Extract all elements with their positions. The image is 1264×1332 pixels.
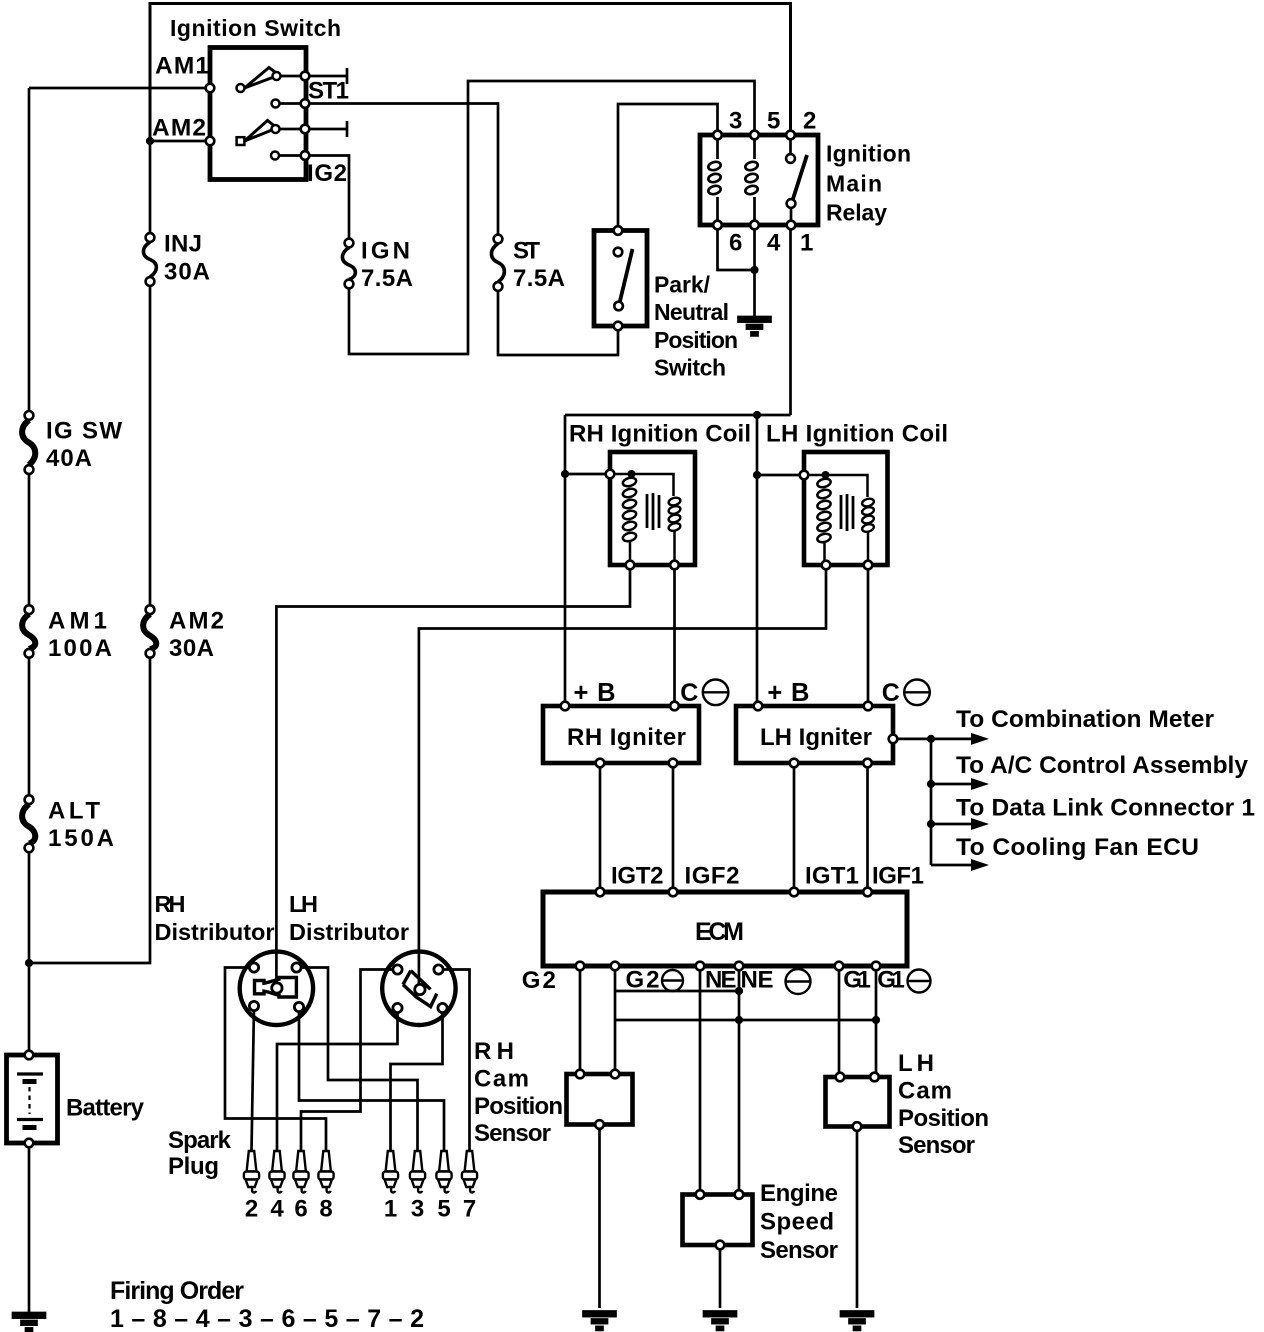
wire AM2/INJ vertical — [149, 141, 152, 233]
svg-text:Firing Order: Firing Order — [110, 1277, 244, 1305]
wire LH coil +B branch — [757, 474, 804, 477]
svg-text:100A: 100A — [48, 635, 112, 662]
RH coil pins — [606, 470, 679, 570]
ignition main relay box — [700, 135, 818, 225]
LH cam position sensor box — [826, 1077, 890, 1127]
svg-text:C: C — [680, 679, 698, 707]
ground relay — [739, 317, 771, 335]
wire RH coil C to RH igniter — [673, 565, 676, 706]
ECM box — [543, 892, 907, 966]
svg-text:150A: 150A — [48, 825, 114, 852]
svg-text:IGT2: IGT2 — [611, 863, 664, 890]
svg-text:30A: 30A — [164, 259, 210, 286]
wire IGN fuse to relay pin 5 — [349, 81, 755, 354]
ignition switch SW1 box — [210, 48, 306, 180]
symbol circle-minus G1 — [908, 970, 931, 993]
svg-text:LH Igniter: LH Igniter — [760, 724, 872, 751]
svg-text:3: 3 — [411, 1196, 424, 1223]
wire ST1 to ST fuse — [305, 104, 498, 237]
RH igniter box — [543, 706, 699, 763]
svg-text:To A/C Control Assembly: To A/C Control Assembly — [956, 752, 1248, 779]
ignition switch contact arm AM2-IG2 — [237, 121, 305, 146]
wire LH distributor terminal TL to spark plug 6 — [301, 970, 398, 1151]
wire arrow to cooling fan ECU — [931, 864, 972, 867]
wire +B bus — [565, 414, 791, 417]
wire LH cam sensor ground — [856, 1127, 859, 1309]
svg-text:RH Igniter: RH Igniter — [567, 724, 686, 751]
svg-text:NE: NE — [741, 967, 774, 994]
symbol circle-minus NE — [786, 969, 811, 994]
spark plug 8 — [318, 1151, 333, 1192]
RH distributor body — [240, 952, 313, 1025]
svg-text:G2: G2 — [626, 967, 660, 994]
svg-text:Engine: Engine — [760, 1180, 838, 1207]
svg-text:5: 5 — [767, 108, 780, 135]
svg-text:3: 3 — [729, 108, 742, 135]
wire LH distributor terminal BL to spark plug 4 — [277, 1009, 398, 1150]
RH coil core — [647, 493, 659, 530]
spark plug 5 — [436, 1151, 451, 1192]
node junction relay coil return — [750, 266, 758, 274]
svg-text:G1: G1 — [843, 967, 871, 994]
wire relay pin 1 to +B bus — [789, 225, 792, 415]
ground LH cam sensor — [841, 1312, 873, 1330]
svg-text:IGF2: IGF2 — [685, 863, 740, 890]
svg-text:Speed: Speed — [760, 1209, 834, 1236]
wire LH igniter output to combination meter arrow — [893, 738, 972, 741]
wire G2- to NE- jog — [615, 990, 739, 993]
node junction RH coil +B — [561, 470, 569, 478]
wire AM2 feed — [150, 140, 210, 143]
node junction NE- jog — [735, 987, 743, 995]
spark plug 2 — [244, 1151, 259, 1192]
wire IGT2 — [599, 763, 602, 892]
LH distributor terminals — [393, 965, 447, 1013]
svg-text:6: 6 — [729, 230, 742, 257]
wire battery negative to ground — [28, 1143, 31, 1312]
arrowhead data link — [971, 818, 989, 830]
svg-text:Switch: Switch — [654, 355, 726, 381]
spark plug 7 — [462, 1151, 477, 1192]
svg-text:To Data Link Connector 1: To Data Link Connector 1 — [956, 795, 1255, 822]
wire G1 to LH cam sensor — [838, 966, 841, 1077]
svg-text:7.5A: 7.5A — [361, 265, 413, 292]
svg-text:IG SW: IG SW — [46, 418, 122, 445]
svg-text:To Cooling Fan ECU: To Cooling Fan ECU — [956, 834, 1199, 861]
relay coil 2 (pins 5-4) — [744, 137, 758, 225]
wire RH cam sensor ground — [598, 1125, 601, 1309]
svg-text:Park/: Park/ — [654, 272, 711, 298]
fusible link ALT 150A — [22, 795, 35, 852]
wire G2- shield vertical — [614, 966, 617, 1076]
wire ACC stub lower — [305, 128, 347, 131]
RH ignition coil T1 box — [610, 452, 695, 565]
svg-text:4: 4 — [767, 230, 781, 257]
wire IG2 to IGN fuse — [305, 156, 349, 242]
wire G2 to RH cam sensor — [579, 966, 582, 1074]
RH igniter pins — [561, 702, 679, 768]
ignition switch terminal pins right — [301, 72, 310, 160]
svg-text:7.5A: 7.5A — [513, 265, 565, 292]
relay coil 1 (pins 3-6) — [707, 137, 721, 225]
svg-text:ALT: ALT — [48, 798, 100, 825]
node junction LH coil +B — [753, 471, 761, 479]
svg-text:AM1: AM1 — [155, 53, 209, 80]
svg-text:IGF1: IGF1 — [872, 863, 924, 890]
svg-text:ST1: ST1 — [308, 78, 349, 105]
engine speed sensor pins — [696, 1190, 744, 1249]
fusible link AM1 100A — [22, 605, 35, 657]
svg-text:30A: 30A — [169, 635, 214, 662]
svg-text:6: 6 — [294, 1196, 307, 1223]
wire +B LH vertical — [756, 415, 759, 706]
wire RH distributor terminal TR to spark plug 3 — [297, 968, 418, 1151]
wire LH coil high tension to LH distributor — [419, 565, 826, 988]
ground battery — [13, 1313, 45, 1331]
LH coil pins — [800, 471, 873, 570]
wire NE- to engine speed sensor — [738, 966, 741, 1195]
svg-text:Neutral: Neutral — [654, 299, 729, 325]
svg-text:Cam: Cam — [474, 1066, 529, 1093]
spark plug 3 — [410, 1151, 425, 1192]
symbol circle-minus LH C — [904, 680, 930, 706]
spark plug 6 — [293, 1151, 308, 1192]
fuse INJ 30A — [143, 233, 156, 286]
spark plug 4 — [269, 1151, 284, 1192]
LH distributor body — [382, 952, 455, 1025]
svg-text:AM2: AM2 — [169, 608, 224, 635]
symbol circle-minus RH C — [703, 680, 729, 706]
wire +B RH vertical — [564, 415, 567, 706]
svg-text:Battery: Battery — [66, 1095, 145, 1122]
ignition switch terminal AM1 — [206, 84, 215, 93]
node junction shield G1- — [872, 1016, 880, 1024]
svg-text:INJ: INJ — [164, 231, 202, 258]
arrowhead A/C — [971, 778, 989, 790]
svg-text:Ignition Switch: Ignition Switch — [170, 15, 341, 41]
svg-text:G2: G2 — [522, 967, 556, 994]
wire ACC stub upper — [305, 75, 347, 78]
node junction +B LH — [753, 411, 761, 419]
svg-text:AM1: AM1 — [48, 608, 107, 635]
LH ignition coil T2 box — [804, 452, 888, 565]
relay pins 3 5 2 top — [713, 131, 795, 140]
svg-text:Sensor: Sensor — [898, 1132, 975, 1159]
engine speed sensor box — [683, 1195, 753, 1246]
RH distributor terminals — [249, 963, 303, 1012]
svg-text:Position: Position — [898, 1105, 989, 1132]
wire RH coil +B branch — [565, 473, 610, 476]
svg-text:4: 4 — [270, 1196, 284, 1223]
svg-text:Main: Main — [826, 171, 882, 197]
svg-text:LH: LH — [898, 1050, 934, 1077]
wire G1- to LH cam sensor — [875, 966, 878, 1077]
svg-text:Distributor: Distributor — [155, 919, 275, 945]
node junction output bus top — [927, 735, 935, 743]
LH distributor rotor — [403, 971, 437, 1007]
wire RH distributor terminal TL to spark plug 8 — [225, 968, 326, 1151]
wire RH distributor terminal BL to spark plug 2 — [252, 1006, 255, 1150]
fuse ST 7.5A — [491, 235, 504, 291]
wire arrow to A/C control assembly — [931, 783, 972, 786]
LH cam position sensor pins — [836, 1073, 879, 1131]
RH distributor rotor — [255, 978, 297, 998]
ignition switch contact ST1 — [272, 100, 306, 108]
wire AM1 feed — [29, 87, 210, 90]
svg-text:Sensor: Sensor — [760, 1237, 838, 1264]
wire engine speed sensor ground — [719, 1245, 722, 1308]
svg-text:To Combination Meter: To Combination Meter — [956, 706, 1214, 733]
ignition switch contact arm AM1-ST — [237, 68, 306, 93]
svg-text:C: C — [882, 679, 900, 707]
wire LH distributor terminal BR to spark plug 1 — [391, 1009, 443, 1150]
wire IGF2 — [672, 763, 675, 892]
RH coil secondary winding — [668, 496, 681, 532]
wire relay pin 4 to ground — [753, 225, 756, 317]
wire park/neutral switch to relay pin 3 — [618, 104, 718, 230]
svg-text:ST: ST — [513, 238, 540, 265]
svg-text:LH: LH — [289, 891, 318, 917]
fuse IGN 7.5A — [342, 239, 355, 289]
svg-text:IG2: IG2 — [307, 160, 347, 187]
relay switch (pins 2-1) — [786, 139, 807, 221]
wire IGF1 — [866, 763, 869, 892]
svg-text:8: 8 — [319, 1196, 332, 1223]
LH coil primary winding — [816, 477, 831, 543]
RH coil primary winding — [622, 476, 637, 542]
LH coil secondary winding — [861, 497, 874, 533]
svg-text:5: 5 — [437, 1196, 450, 1223]
ignition switch terminal AM2 — [206, 137, 215, 146]
wire LH distributor terminal TR to spark plug 7 — [439, 970, 470, 1151]
ECM top pins — [596, 888, 872, 897]
svg-text:1 – 8 – 4 – 3 – 6 – 5 – 7 – 2: 1 – 8 – 4 – 3 – 6 – 5 – 7 – 2 — [110, 1305, 424, 1332]
fusible link IG SW 40A — [22, 411, 35, 474]
RH cam position sensor pins — [576, 1070, 620, 1129]
svg-text:NE: NE — [705, 967, 737, 994]
node junction shield NE- — [735, 1016, 743, 1024]
wire top bus from AM2 line to relay pin 2 — [150, 4, 791, 142]
park/neutral switch contacts and arm — [614, 226, 633, 330]
node junction battery bus — [25, 959, 33, 967]
LH coil internal wiring — [804, 471, 868, 565]
svg-text:Ignition: Ignition — [826, 141, 911, 167]
ignition switch contact IG2 lower — [271, 152, 305, 160]
svg-text:Distributor: Distributor — [289, 919, 409, 945]
svg-text:Position: Position — [654, 327, 738, 353]
ECM bottom pins — [576, 962, 881, 971]
svg-text:2: 2 — [803, 108, 816, 135]
node junction output bus 2 — [927, 780, 935, 788]
label spark plug numbers 2 4 6 8 — [245, 1196, 333, 1223]
svg-text:IGT1: IGT1 — [805, 863, 859, 890]
svg-text:RH: RH — [155, 891, 186, 917]
spark plug 1 — [383, 1151, 398, 1192]
RH coil internal wiring — [610, 470, 675, 565]
LH coil core — [841, 494, 853, 531]
svg-text:1: 1 — [384, 1196, 397, 1223]
node junction AM2 — [146, 137, 154, 145]
RH cam position sensor box — [567, 1074, 633, 1125]
wire IGT1 — [793, 763, 796, 892]
svg-text:40A: 40A — [46, 445, 92, 472]
svg-text:ECM: ECM — [695, 918, 744, 946]
svg-text:Sensor: Sensor — [474, 1120, 551, 1147]
node junction output bus 3 — [927, 820, 935, 828]
wire output bus vertical — [930, 739, 933, 865]
wire LH coil C to LH igniter — [867, 565, 870, 706]
svg-text:Relay: Relay — [826, 200, 887, 226]
svg-text:Plug: Plug — [168, 1153, 219, 1180]
arrowhead combination meter — [971, 733, 989, 745]
wire ST fuse to park/neutral switch — [498, 289, 618, 355]
svg-text:1: 1 — [800, 230, 813, 257]
wire NE to engine speed sensor — [699, 966, 702, 1195]
arrowhead cooling fan — [971, 859, 989, 871]
wire arrow to data link connector — [931, 823, 972, 826]
LH igniter box — [736, 706, 893, 763]
LH igniter pins — [754, 702, 898, 768]
ground RH cam sensor — [584, 1312, 616, 1330]
svg-text:AM2: AM2 — [152, 115, 206, 142]
svg-text:Cam: Cam — [898, 1078, 952, 1105]
svg-text:7: 7 — [463, 1196, 476, 1223]
label spark plug numbers 1 3 5 7 — [384, 1196, 476, 1223]
wire battery positive bus (left vertical) — [28, 88, 31, 411]
battery — [7, 1051, 58, 1148]
svg-text:G1: G1 — [877, 967, 905, 994]
ground engine speed sensor — [704, 1312, 736, 1330]
svg-text:Spark: Spark — [168, 1127, 232, 1154]
wire shield bus — [615, 1019, 876, 1022]
wire RH coil high tension to RH distributor — [276, 565, 630, 988]
svg-text:Position: Position — [474, 1093, 563, 1120]
park/neutral position switch box — [594, 231, 647, 327]
svg-text:RH Ignition Coil: RH Ignition Coil — [569, 421, 751, 448]
wire RH distributor terminal BR to spark plug 5 — [299, 1007, 444, 1150]
relay pins 6 4 1 bottom — [713, 221, 795, 230]
svg-text:LH Ignition Coil: LH Ignition Coil — [766, 421, 948, 448]
wire relay pin 6 to pin 4 — [718, 225, 755, 270]
svg-text:2: 2 — [245, 1196, 258, 1223]
fusible link AM2 30A — [143, 605, 156, 657]
symbol circle-minus G2 — [662, 970, 683, 991]
